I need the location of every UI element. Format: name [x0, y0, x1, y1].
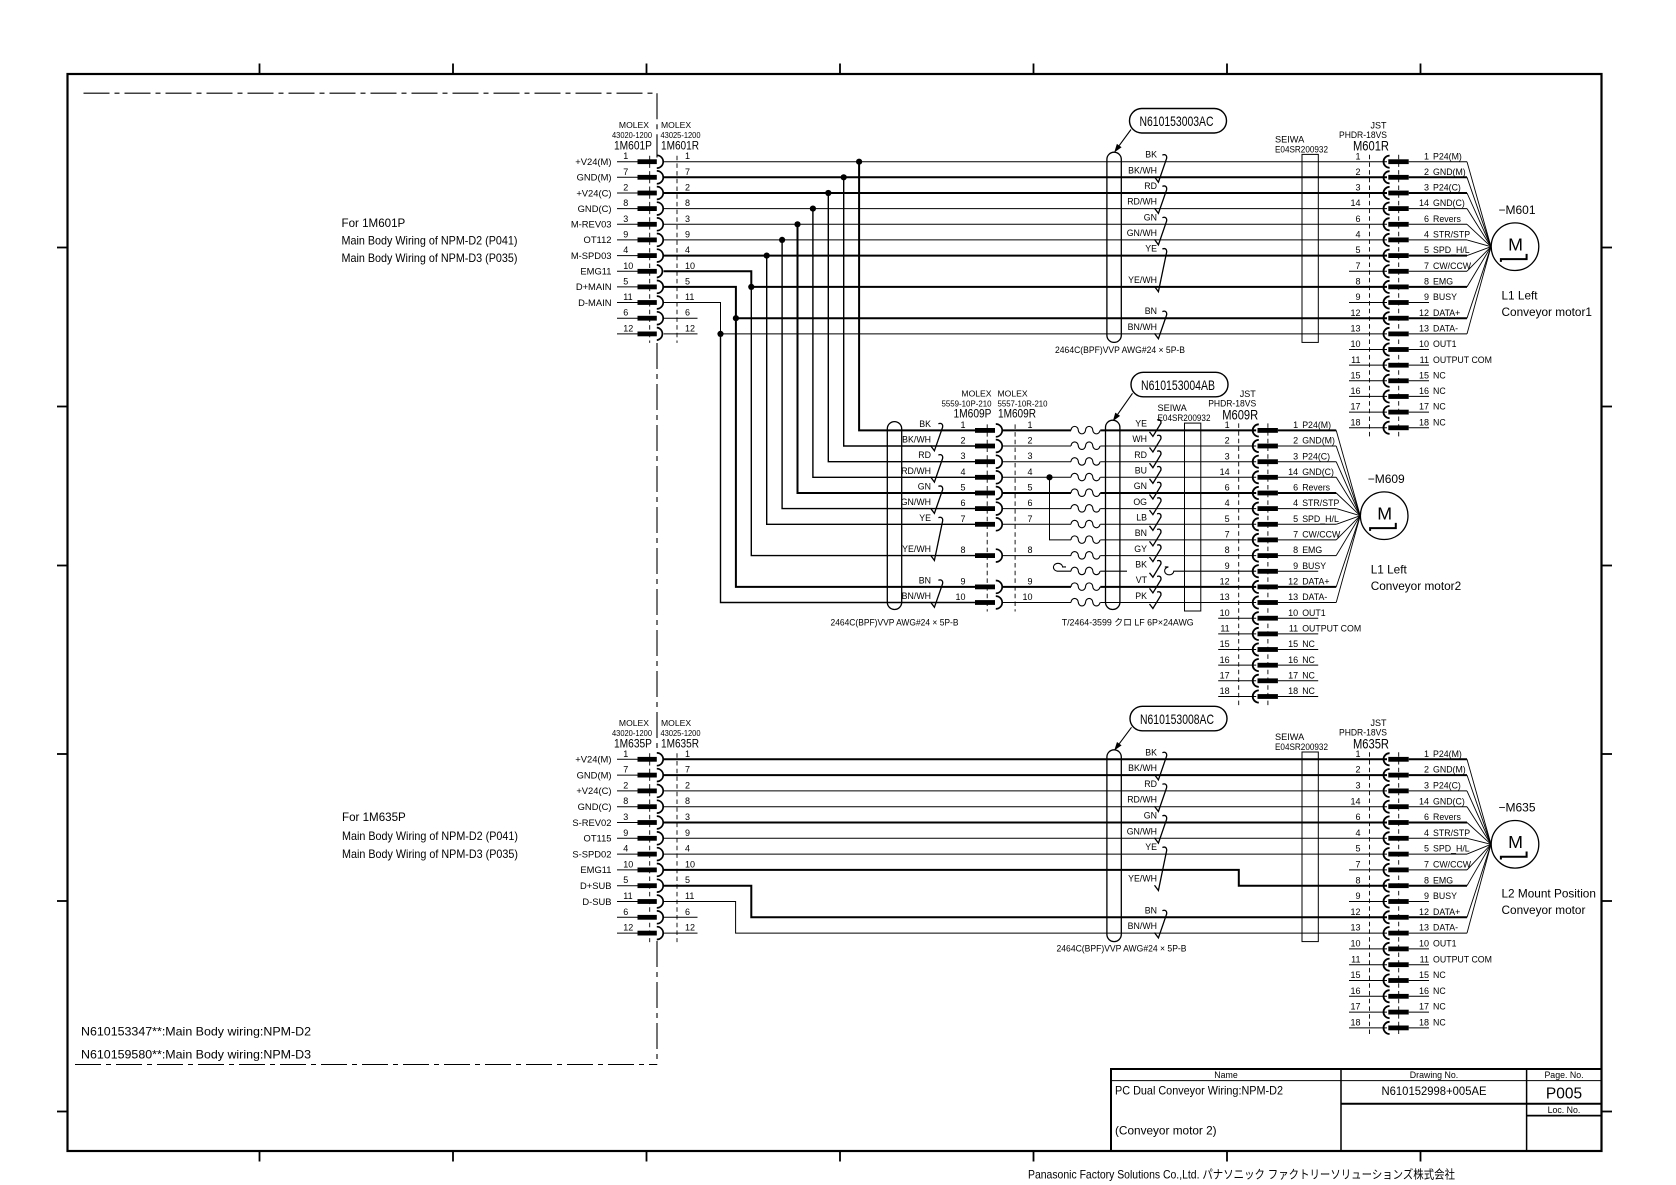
svg-text:6: 6 [685, 907, 690, 917]
svg-text:1M635R: 1M635R [661, 736, 699, 750]
svg-text:14: 14 [1350, 198, 1360, 208]
svg-text:GN/WH: GN/WH [901, 497, 931, 507]
svg-text:BN/WH: BN/WH [1128, 322, 1157, 332]
svg-text:2: 2 [1355, 765, 1360, 775]
svg-text:BN: BN [919, 575, 931, 585]
svg-text:RD/WH: RD/WH [1127, 795, 1157, 805]
svg-text:4: 4 [1027, 467, 1032, 477]
svg-text:3: 3 [1027, 451, 1032, 461]
svg-text:DATA+: DATA+ [1433, 308, 1460, 318]
svg-text:S-SPD02: S-SPD02 [572, 848, 611, 859]
svg-text:MOLEX: MOLEX [661, 120, 691, 130]
svg-text:NC: NC [1302, 639, 1315, 649]
svg-text:1: 1 [1225, 420, 1230, 430]
svg-text:DATA-: DATA- [1433, 923, 1458, 933]
svg-text:OUT1: OUT1 [1433, 939, 1457, 949]
svg-text:BK/WH: BK/WH [1128, 763, 1157, 773]
svg-text:MOLEX: MOLEX [661, 718, 691, 728]
svg-text:STR/STP: STR/STP [1433, 828, 1470, 838]
svg-text:12: 12 [623, 923, 633, 933]
svg-text:1: 1 [1424, 151, 1429, 161]
svg-text:NC: NC [1433, 386, 1446, 396]
svg-text:Revers: Revers [1433, 214, 1461, 224]
svg-text:P24(C): P24(C) [1433, 183, 1461, 193]
svg-text:9: 9 [1355, 292, 1360, 302]
svg-text:SPD_H/L: SPD_H/L [1302, 514, 1339, 524]
svg-text:NC: NC [1433, 402, 1446, 412]
svg-text:7: 7 [685, 765, 690, 775]
svg-text:2: 2 [1424, 167, 1429, 177]
svg-text:6: 6 [1293, 483, 1298, 493]
svg-text:11: 11 [623, 292, 632, 302]
svg-text:D-SUB: D-SUB [582, 896, 611, 907]
svg-text:Revers: Revers [1302, 483, 1330, 493]
svg-text:2: 2 [685, 183, 690, 193]
svg-text:2464C(BPF)VVP AWG#24 × 5P-B: 2464C(BPF)VVP AWG#24 × 5P-B [1057, 944, 1187, 954]
svg-text:11: 11 [1220, 624, 1229, 634]
svg-text:For 1M601P: For 1M601P [342, 217, 406, 230]
svg-text:6: 6 [960, 498, 965, 508]
svg-text:7: 7 [1424, 860, 1429, 870]
svg-text:−M635: −M635 [1499, 801, 1536, 815]
svg-text:13: 13 [1288, 592, 1298, 602]
svg-text:1: 1 [1424, 749, 1429, 759]
svg-text:10: 10 [1419, 939, 1429, 949]
svg-text:13: 13 [1419, 324, 1429, 334]
svg-text:BUSY: BUSY [1433, 292, 1457, 302]
svg-text:DATA-: DATA- [1433, 324, 1458, 334]
svg-text:16: 16 [1350, 986, 1360, 996]
svg-text:12: 12 [1419, 907, 1429, 917]
svg-text:1: 1 [1355, 749, 1360, 759]
svg-text:Main Body Wiring of NPM-D2 (P0: Main Body Wiring of NPM-D2 (P041) [342, 235, 518, 248]
svg-text:RD: RD [1144, 181, 1157, 191]
svg-text:RD/WH: RD/WH [901, 466, 931, 476]
svg-text:14: 14 [1288, 467, 1298, 477]
svg-text:P24(M): P24(M) [1302, 420, 1331, 430]
svg-text:10: 10 [685, 261, 695, 271]
svg-text:6: 6 [623, 308, 628, 318]
svg-text:2464C(BPF)VVP AWG#24 × 5P-B: 2464C(BPF)VVP AWG#24 × 5P-B [1055, 345, 1185, 355]
svg-text:GN/WH: GN/WH [1127, 826, 1157, 836]
svg-text:LB: LB [1136, 513, 1147, 523]
svg-text:6: 6 [1424, 812, 1429, 822]
svg-text:5: 5 [685, 276, 690, 286]
svg-text:EMG11: EMG11 [580, 864, 611, 875]
svg-text:BUSY: BUSY [1302, 561, 1326, 571]
svg-text:9: 9 [1424, 292, 1429, 302]
svg-text:3: 3 [623, 214, 628, 224]
svg-text:9: 9 [623, 229, 628, 239]
svg-text:2: 2 [1355, 167, 1360, 177]
svg-text:4: 4 [1355, 828, 1360, 838]
svg-text:DATA-: DATA- [1302, 592, 1327, 602]
svg-text:2: 2 [960, 436, 965, 446]
svg-text:4: 4 [685, 844, 690, 854]
svg-text:GND(M): GND(M) [577, 769, 612, 780]
svg-text:L1 Left: L1 Left [1371, 563, 1408, 577]
svg-text:NC: NC [1433, 417, 1446, 427]
svg-text:8: 8 [1225, 545, 1230, 555]
svg-text:16: 16 [1419, 386, 1429, 396]
svg-text:6: 6 [1027, 498, 1032, 508]
svg-text:BN: BN [1145, 306, 1157, 316]
svg-text:N610153004AB: N610153004AB [1141, 377, 1215, 393]
svg-text:3: 3 [1355, 183, 1360, 193]
svg-text:14: 14 [1220, 467, 1230, 477]
svg-text:16: 16 [1419, 986, 1429, 996]
svg-text:RD: RD [1134, 450, 1147, 460]
svg-text:−M609: −M609 [1368, 472, 1405, 486]
svg-text:CW/CCW: CW/CCW [1433, 860, 1472, 870]
svg-text:10: 10 [623, 859, 633, 869]
svg-text:17: 17 [1220, 670, 1230, 680]
svg-text:1: 1 [685, 151, 690, 161]
svg-text:15: 15 [1419, 370, 1429, 380]
svg-text:9: 9 [685, 229, 690, 239]
svg-text:15: 15 [1350, 970, 1360, 980]
svg-text:5: 5 [960, 483, 965, 493]
svg-text:E04SR200932: E04SR200932 [1275, 742, 1328, 752]
svg-text:1: 1 [960, 420, 965, 430]
svg-text:GND(C): GND(C) [578, 801, 612, 812]
svg-text:GND(C): GND(C) [578, 203, 612, 214]
svg-text:N610153347**:Main Body wiring:: N610153347**:Main Body wiring:NPM-D2 [81, 1025, 311, 1039]
svg-text:OG: OG [1133, 497, 1147, 507]
svg-text:4: 4 [1355, 230, 1360, 240]
svg-text:CW/CCW: CW/CCW [1433, 261, 1472, 271]
svg-text:6: 6 [623, 907, 628, 917]
svg-text:OUTPUT COM: OUTPUT COM [1433, 954, 1492, 964]
svg-text:18: 18 [1419, 1018, 1429, 1028]
svg-text:14: 14 [1419, 796, 1429, 806]
svg-text:2: 2 [623, 183, 628, 193]
svg-text:M-SPD03: M-SPD03 [571, 250, 612, 261]
svg-text:4: 4 [1225, 498, 1230, 508]
svg-text:18: 18 [1350, 1018, 1360, 1028]
svg-text:3: 3 [1424, 781, 1429, 791]
svg-text:12: 12 [1350, 308, 1360, 318]
svg-text:P005: P005 [1546, 1086, 1582, 1103]
svg-text:YE: YE [1135, 419, 1147, 429]
svg-text:8: 8 [1355, 875, 1360, 885]
svg-text:RD: RD [918, 450, 931, 460]
svg-text:5: 5 [1355, 245, 1360, 255]
svg-text:15: 15 [1220, 639, 1230, 649]
svg-text:7: 7 [1027, 514, 1032, 524]
svg-text:11: 11 [1420, 954, 1429, 964]
svg-text:2: 2 [685, 780, 690, 790]
svg-text:Revers: Revers [1433, 812, 1461, 822]
svg-text:11: 11 [1289, 624, 1298, 634]
svg-text:DATA+: DATA+ [1302, 577, 1329, 587]
svg-text:GND(C): GND(C) [1433, 198, 1465, 208]
svg-text:2: 2 [1293, 436, 1298, 446]
svg-text:Conveyor motor: Conveyor motor [1502, 903, 1586, 917]
svg-text:17: 17 [1419, 1002, 1429, 1012]
svg-text:4: 4 [1293, 498, 1298, 508]
svg-text:11: 11 [1351, 355, 1360, 365]
svg-text:17: 17 [1288, 670, 1298, 680]
svg-text:Main Body Wiring of NPM-D2 (P0: Main Body Wiring of NPM-D2 (P041) [342, 830, 518, 843]
svg-text:D+MAIN: D+MAIN [576, 281, 612, 292]
svg-text:9: 9 [960, 576, 965, 586]
svg-text:7: 7 [1424, 261, 1429, 271]
svg-text:SEIWA: SEIWA [1275, 732, 1305, 742]
svg-text:EMG: EMG [1433, 875, 1453, 885]
svg-text:YE: YE [1145, 244, 1157, 254]
svg-text:10: 10 [1022, 592, 1032, 602]
svg-text:BN: BN [1135, 528, 1147, 538]
svg-text:RD: RD [1144, 779, 1157, 789]
svg-text:Name: Name [1214, 1070, 1238, 1080]
svg-text:MOLEX: MOLEX [998, 388, 1028, 398]
svg-text:M-REV03: M-REV03 [571, 219, 612, 230]
svg-text:WH: WH [1132, 434, 1147, 444]
svg-text:DATA+: DATA+ [1433, 907, 1460, 917]
svg-text:Panasonic Factory Solutions Co: Panasonic Factory Solutions Co.,Ltd. パナソ… [1028, 1167, 1455, 1182]
svg-text:10: 10 [685, 859, 695, 869]
svg-text:P24(C): P24(C) [1433, 781, 1461, 791]
svg-text:(Conveyor motor 2): (Conveyor motor 2) [1115, 1124, 1217, 1138]
svg-text:1M609P: 1M609P [954, 406, 992, 420]
svg-text:GND(M): GND(M) [1433, 167, 1466, 177]
svg-text:−M601: −M601 [1499, 203, 1536, 217]
svg-text:BU: BU [1135, 466, 1147, 476]
svg-text:CW/CCW: CW/CCW [1302, 530, 1341, 540]
svg-text:8: 8 [1027, 545, 1032, 555]
svg-text:8: 8 [1293, 545, 1298, 555]
svg-text:MOLEX: MOLEX [961, 388, 991, 398]
svg-text:GND(C): GND(C) [1302, 467, 1334, 477]
svg-text:S-REV02: S-REV02 [572, 817, 611, 828]
svg-text:OUT1: OUT1 [1302, 608, 1326, 618]
svg-text:3: 3 [685, 214, 690, 224]
svg-text:12: 12 [1419, 308, 1429, 318]
svg-text:EMG: EMG [1433, 277, 1453, 287]
svg-text:1M601P: 1M601P [614, 139, 652, 153]
svg-text:BN: BN [1145, 905, 1157, 915]
svg-text:OUTPUT COM: OUTPUT COM [1433, 355, 1492, 365]
svg-text:18: 18 [1220, 686, 1230, 696]
svg-text:3: 3 [1225, 451, 1230, 461]
svg-text:BK: BK [1145, 747, 1157, 757]
svg-text:+V24(C): +V24(C) [576, 187, 611, 198]
svg-text:MOLEX: MOLEX [619, 718, 649, 728]
svg-text:12: 12 [685, 923, 695, 933]
svg-text:6: 6 [1424, 214, 1429, 224]
svg-text:2: 2 [623, 780, 628, 790]
svg-text:M: M [1508, 234, 1523, 254]
svg-text:7: 7 [623, 765, 628, 775]
svg-text:SEIWA: SEIWA [1275, 135, 1305, 145]
svg-text:SPD_H/L: SPD_H/L [1433, 844, 1470, 854]
svg-text:1M609R: 1M609R [998, 406, 1036, 420]
svg-text:11: 11 [1420, 355, 1429, 365]
svg-text:OT115: OT115 [584, 833, 612, 844]
svg-text:NC: NC [1302, 670, 1315, 680]
svg-text:YE: YE [1145, 842, 1157, 852]
svg-text:RD/WH: RD/WH [1127, 197, 1157, 207]
svg-text:OT112: OT112 [584, 234, 612, 245]
svg-text:13: 13 [1220, 592, 1230, 602]
svg-text:14: 14 [1419, 198, 1429, 208]
svg-text:NC: NC [1433, 1002, 1446, 1012]
svg-text:15: 15 [1419, 970, 1429, 980]
svg-text:10: 10 [623, 261, 633, 271]
svg-text:YE: YE [919, 513, 931, 523]
svg-text:7: 7 [1355, 860, 1360, 870]
svg-text:GN: GN [1144, 212, 1157, 222]
svg-text:8: 8 [1424, 875, 1429, 885]
svg-text:17: 17 [1350, 1002, 1360, 1012]
svg-text:11: 11 [685, 292, 694, 302]
svg-text:BK/WH: BK/WH [902, 435, 931, 445]
svg-text:15: 15 [1288, 639, 1298, 649]
svg-text:P24(M): P24(M) [1433, 151, 1462, 161]
svg-text:BK: BK [1145, 150, 1157, 160]
svg-text:8: 8 [623, 198, 628, 208]
svg-text:N610159580**:Main Body wiring:: N610159580**:Main Body wiring:NPM-D3 [81, 1048, 311, 1062]
svg-text:4: 4 [1424, 828, 1429, 838]
svg-text:D-MAIN: D-MAIN [578, 297, 611, 308]
svg-text:6: 6 [1355, 214, 1360, 224]
svg-text:P24(M): P24(M) [1433, 749, 1462, 759]
svg-text:2: 2 [1027, 436, 1032, 446]
svg-text:1: 1 [1293, 420, 1298, 430]
svg-text:N610153008AC: N610153008AC [1140, 711, 1214, 727]
svg-text:EMG11: EMG11 [580, 266, 611, 277]
svg-text:BK: BK [919, 419, 931, 429]
svg-text:18: 18 [1419, 417, 1429, 427]
svg-text:VT: VT [1136, 575, 1148, 585]
svg-text:4: 4 [1424, 230, 1429, 240]
svg-text:15: 15 [1350, 370, 1360, 380]
svg-text:16: 16 [1220, 655, 1230, 665]
svg-text:3: 3 [1424, 183, 1429, 193]
svg-text:EMG: EMG [1302, 545, 1322, 555]
svg-text:GN: GN [1134, 481, 1147, 491]
svg-text:NC: NC [1433, 370, 1446, 380]
svg-text:16: 16 [1288, 655, 1298, 665]
svg-text:9: 9 [1027, 576, 1032, 586]
svg-text:11: 11 [1351, 954, 1360, 964]
svg-text:9: 9 [1424, 891, 1429, 901]
svg-text:SEIWA: SEIWA [1158, 403, 1188, 413]
svg-text:OUTPUT COM: OUTPUT COM [1302, 624, 1361, 634]
svg-text:1: 1 [685, 749, 690, 759]
svg-text:GND(M): GND(M) [1302, 436, 1335, 446]
svg-text:SPD_H/L: SPD_H/L [1433, 245, 1470, 255]
svg-text:GN: GN [918, 482, 931, 492]
svg-text:9: 9 [1225, 561, 1230, 571]
svg-text:GN/WH: GN/WH [1127, 228, 1157, 238]
svg-text:11: 11 [685, 891, 694, 901]
svg-text:3: 3 [1293, 451, 1298, 461]
svg-text:BUSY: BUSY [1433, 891, 1457, 901]
svg-text:10: 10 [1350, 339, 1360, 349]
svg-text:GND(C): GND(C) [1433, 796, 1465, 806]
svg-text:NC: NC [1433, 1018, 1446, 1028]
svg-text:NC: NC [1302, 686, 1315, 696]
svg-text:MOLEX: MOLEX [619, 120, 649, 130]
svg-text:1M601R: 1M601R [661, 139, 699, 153]
svg-text:P24(C): P24(C) [1302, 451, 1330, 461]
svg-text:6: 6 [1355, 812, 1360, 822]
svg-text:10: 10 [1220, 608, 1230, 618]
svg-text:8: 8 [960, 545, 965, 555]
svg-text:10: 10 [1419, 339, 1429, 349]
svg-text:4: 4 [960, 467, 965, 477]
svg-text:3: 3 [685, 812, 690, 822]
svg-text:Loc. No.: Loc. No. [1548, 1105, 1581, 1115]
svg-text:3: 3 [1355, 781, 1360, 791]
svg-text:9: 9 [1293, 561, 1298, 571]
svg-text:3: 3 [960, 451, 965, 461]
svg-text:13: 13 [1350, 923, 1360, 933]
svg-text:8: 8 [623, 796, 628, 806]
svg-text:NC: NC [1302, 655, 1315, 665]
svg-text:8: 8 [685, 796, 690, 806]
svg-text:5: 5 [1293, 514, 1298, 524]
svg-text:NC: NC [1433, 986, 1446, 996]
svg-text:5: 5 [623, 875, 628, 885]
svg-text:12: 12 [1220, 577, 1230, 587]
svg-text:N610153003AC: N610153003AC [1140, 113, 1214, 129]
svg-text:12: 12 [1350, 907, 1360, 917]
svg-text:10: 10 [1288, 608, 1298, 618]
svg-text:+V24(M): +V24(M) [575, 754, 611, 765]
svg-text:1: 1 [1355, 151, 1360, 161]
svg-text:For 1M635P: For 1M635P [342, 811, 406, 824]
svg-text:PK: PK [1135, 591, 1147, 601]
svg-text:16: 16 [1350, 386, 1360, 396]
svg-text:12: 12 [685, 323, 695, 333]
svg-text:9: 9 [685, 828, 690, 838]
svg-text:5: 5 [685, 875, 690, 885]
svg-text:5: 5 [1355, 844, 1360, 854]
svg-text:1: 1 [623, 151, 628, 161]
svg-text:5: 5 [623, 276, 628, 286]
svg-text:E04SR200932: E04SR200932 [1158, 413, 1211, 423]
svg-text:OUT1: OUT1 [1433, 339, 1457, 349]
svg-text:T/2464-3599 クロ LF 6P×24AWG: T/2464-3599 クロ LF 6P×24AWG [1062, 617, 1194, 627]
svg-text:BN/WH: BN/WH [1128, 921, 1157, 931]
svg-text:L2 Mount Position: L2 Mount Position [1502, 886, 1596, 900]
svg-text:Main Body Wiring of NPM-D3 (P0: Main Body Wiring of NPM-D3 (P035) [342, 848, 518, 861]
svg-text:7: 7 [1293, 530, 1298, 540]
svg-text:NC: NC [1433, 970, 1446, 980]
svg-text:4: 4 [685, 245, 690, 255]
svg-text:+V24(M): +V24(M) [575, 156, 611, 167]
svg-text:Main Body Wiring of NPM-D3 (P0: Main Body Wiring of NPM-D3 (P035) [342, 252, 518, 265]
svg-text:Drawing No.: Drawing No. [1410, 1070, 1458, 1080]
svg-text:13: 13 [1419, 923, 1429, 933]
svg-text:Page. No.: Page. No. [1544, 1070, 1583, 1080]
svg-text:BN/WH: BN/WH [902, 591, 931, 601]
svg-text:2: 2 [1424, 765, 1429, 775]
svg-text:17: 17 [1419, 402, 1429, 412]
svg-text:BK: BK [1135, 560, 1147, 570]
svg-text:12: 12 [1288, 577, 1298, 587]
svg-text:4: 4 [623, 844, 628, 854]
svg-text:M: M [1508, 832, 1523, 852]
svg-text:10: 10 [1350, 939, 1360, 949]
svg-text:10: 10 [955, 592, 965, 602]
svg-text:8: 8 [1355, 277, 1360, 287]
svg-text:+V24(C): +V24(C) [576, 785, 611, 796]
svg-text:18: 18 [1350, 417, 1360, 427]
